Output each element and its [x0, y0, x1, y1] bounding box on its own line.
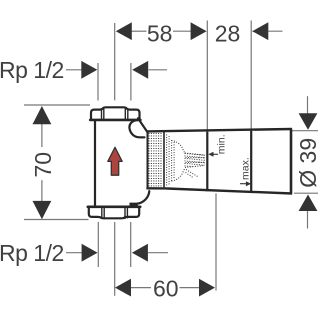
svg-text:58: 58: [147, 20, 173, 46]
svg-text:60: 60: [153, 275, 179, 301]
svg-text:28: 28: [215, 20, 241, 46]
svg-text:Ø 39: Ø 39: [295, 138, 320, 188]
svg-text:max.: max.: [240, 157, 252, 180]
svg-text:min.: min.: [215, 134, 227, 154]
svg-text:Rp 1/2: Rp 1/2: [0, 240, 64, 266]
svg-text:70: 70: [30, 152, 56, 178]
svg-text:Rp 1/2: Rp 1/2: [0, 57, 64, 83]
